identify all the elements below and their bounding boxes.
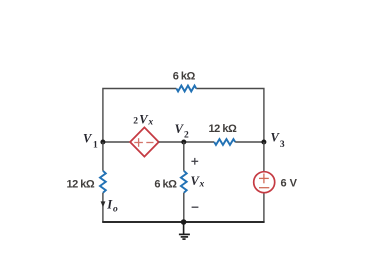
current Io arrow — [101, 201, 106, 207]
wire middle (diamond to V2 to resistor) — [159, 141, 215, 143]
wire middle-left (V1 to diamond) — [103, 141, 130, 143]
node V2 dot — [181, 140, 186, 145]
wire middle vertical upper (V2 down to resistor) — [183, 142, 185, 171]
svg-text:3: 3 — [280, 140, 285, 150]
svg-text:6 kΩ: 6 kΩ — [173, 70, 196, 82]
svg-text:2: 2 — [133, 117, 138, 127]
wire middle-right (resistor to V3) — [235, 141, 264, 143]
svg-text:12 kΩ: 12 kΩ — [209, 123, 237, 135]
resistor 12k horizontal zigzag — [214, 139, 235, 145]
svg-text:x: x — [147, 118, 153, 128]
node V3 dot — [261, 140, 266, 145]
wire right upper (V3 down to source) — [263, 142, 265, 171]
svg-text:x: x — [199, 180, 205, 190]
wire top-right segment — [196, 89, 264, 143]
label V1 — [83, 132, 98, 151]
label plus Vx — [191, 158, 198, 165]
dependent source 2Vx diamond — [130, 127, 159, 156]
resistor 12k left zigzag — [100, 171, 106, 193]
ground — [179, 222, 190, 239]
wire right lower — [263, 193, 265, 222]
svg-text:12 kΩ: 12 kΩ — [66, 178, 94, 190]
svg-text:6 kΩ: 6 kΩ — [154, 178, 177, 190]
wire left lower — [102, 193, 104, 222]
wire top-left segment — [103, 89, 176, 143]
label Io — [106, 198, 118, 215]
wire bottom — [102, 221, 264, 223]
node V1 dot — [100, 140, 105, 145]
label V3 — [271, 131, 285, 151]
svg-text:1: 1 — [93, 141, 98, 151]
voltage source 6V — [254, 172, 275, 193]
svg-text:2: 2 — [184, 130, 189, 140]
resistor 6k middle zigzag — [181, 171, 187, 193]
svg-text:o: o — [113, 204, 118, 214]
junction bottom dot — [181, 219, 187, 225]
label minus Vx — [192, 206, 199, 208]
label V2 — [175, 122, 189, 140]
wire left upper (V1 down to resistor) — [102, 142, 104, 171]
svg-text:6 V: 6 V — [281, 178, 298, 190]
wire middle vertical lower — [183, 193, 185, 222]
label 2Vx — [133, 113, 153, 128]
resistor 6k top zigzag — [176, 86, 196, 92]
label Vx — [191, 174, 205, 190]
